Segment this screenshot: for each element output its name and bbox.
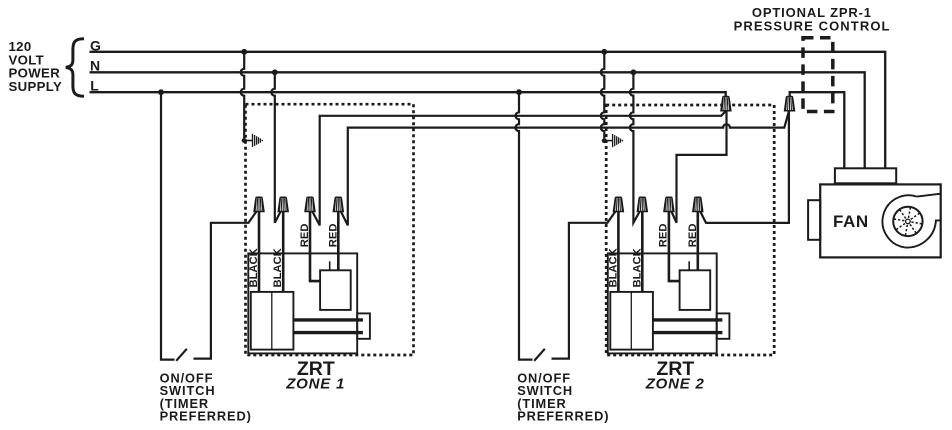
label: ON/OFF SWITCH (TIMER PREFERRED) 1 (160, 371, 252, 424)
wire: nut W2 to fan L terminal (790, 92, 845, 168)
wire nut W2 (785, 97, 795, 111)
wire: nut W2 down-left to zone2 nut R2 (700, 111, 789, 223)
connector tab zone 1 (357, 313, 370, 338)
wire: G down to zone1 ground (hops N, L) (241, 52, 245, 138)
svg-text:BLACK: BLACK (248, 248, 260, 287)
svg-text:RED: RED (658, 224, 670, 248)
svg-text:ZONE 1: ZONE 1 (285, 375, 345, 392)
wire: SW2 up to zone2 nut B1 (552, 212, 616, 359)
wire nut zone2 R1 (664, 197, 674, 211)
node: L-switch2 junction (516, 89, 522, 95)
wire L (to wire nut W1) (90, 92, 726, 97)
red wire 2 zone 2 (696, 211, 699, 271)
label: 120 VOLT POWER SUPPLY (9, 39, 63, 94)
wire nut zone1 B2 (278, 197, 288, 211)
fan inlet tab (808, 200, 820, 240)
node: L-switch1 junction (158, 89, 164, 95)
black wire 2 zone 1 (282, 211, 285, 292)
node: G-zone2 junction (601, 49, 607, 55)
zone 2 enclosure (dotted) (606, 105, 774, 355)
svg-text:PRESSURE CONTROL: PRESSURE CONTROL (734, 18, 891, 33)
wire nut zone1 R2 (333, 197, 343, 211)
fan wheel spokes (894, 208, 921, 235)
wire G (to fan terminal) (90, 52, 886, 169)
wire nut zone1 R1 (305, 197, 315, 211)
node: N-zone2 junction (631, 69, 637, 75)
relay block divider zone 2 (630, 292, 632, 350)
red trunk wire 2: zone1 nut R2 to wire nut W2 (hops W1 drop) (341, 111, 789, 225)
wire nut zone2 B2 (637, 197, 647, 211)
wire nut W1 (721, 97, 731, 111)
wire: SW1 up to zone1 nut B1 (194, 212, 257, 359)
black wire 1 zone 2 (617, 211, 620, 292)
ground lug zone 2 (602, 134, 623, 147)
red wire 2 zone 1 (337, 211, 340, 271)
red trunk wire 1: zone1 nut R1 to wire nut W1 (312, 111, 725, 225)
svg-text:PREFERRED): PREFERRED) (517, 408, 609, 423)
red wire 1 zone 1 (310, 211, 320, 282)
relay block zone 1 (251, 292, 294, 350)
terminal bars zone 1 (293, 320, 363, 333)
switch SW2 blade (534, 349, 545, 361)
label: ON/OFF SWITCH (TIMER PREFERRED) 2 (517, 371, 609, 424)
relay block zone 2 (610, 292, 653, 350)
ground lug zone 1 (242, 134, 263, 147)
svg-text:BLACK: BLACK (607, 248, 619, 287)
node: N-zone1 junction (272, 69, 278, 75)
svg-text:BLACK: BLACK (272, 248, 284, 287)
svg-text:BLACK: BLACK (632, 248, 644, 287)
wire: G down to zone2 ground (hops N, L, red trunks) (601, 52, 605, 138)
svg-text:RED: RED (327, 224, 339, 248)
wire: nut W1 down-left to zone2 nut R1 (672, 111, 727, 223)
ZRT device box zone 2 (608, 253, 717, 353)
brace for power supply (66, 39, 84, 96)
label: OPTIONAL ZPR-1 PRESSURE CONTROL (734, 5, 891, 33)
connector tab zone 2 (717, 313, 730, 338)
wire: L down to switch SW2 (hops red trunks) (516, 92, 533, 359)
fan blower volute (882, 195, 916, 247)
svg-text:PREFERRED): PREFERRED) (160, 408, 252, 423)
black wire 2 zone 2 (641, 211, 644, 292)
wire N (to fan terminal) (90, 72, 865, 168)
fan box (820, 184, 941, 257)
wire nut zone2 R2 (693, 197, 703, 211)
svg-text:ZONE 2: ZONE 2 (645, 375, 705, 392)
fan wheel hub (906, 219, 911, 224)
svg-text:FAN: FAN (833, 212, 869, 231)
ZRT device box zone 1 (248, 253, 357, 353)
zone 1 enclosure (dotted) (246, 104, 414, 355)
ZPR-1 pressure control box (dashed) (803, 38, 833, 112)
transformer block zone 1 (320, 270, 351, 310)
wire: L down to switch SW1 (161, 92, 175, 359)
black wire 1 zone 1 (258, 211, 261, 292)
red wire 1 zone 2 (669, 211, 680, 282)
transformer stub zone 1 (329, 261, 331, 270)
svg-text:RED: RED (687, 224, 699, 248)
transformer stub zone 2 (688, 261, 690, 270)
fan terminal box (835, 168, 896, 183)
wire nut zone1 B1 (254, 197, 264, 211)
node: G-zone1 junction (241, 49, 247, 55)
terminal bars zone 2 (653, 320, 723, 333)
wire: N down to zone2 nut B2 (hops L, red trunks) (630, 72, 640, 223)
wire: N down to zone1 nut B2 (hops L) (271, 72, 280, 223)
switch SW1 blade (176, 349, 187, 361)
svg-text:RED: RED (299, 224, 311, 248)
fan wheel (893, 207, 922, 236)
wire nut zone2 B1 (613, 197, 623, 211)
svg-text:SUPPLY: SUPPLY (9, 79, 63, 94)
transformer block zone 2 (680, 270, 711, 310)
relay block divider zone 1 (271, 292, 273, 350)
